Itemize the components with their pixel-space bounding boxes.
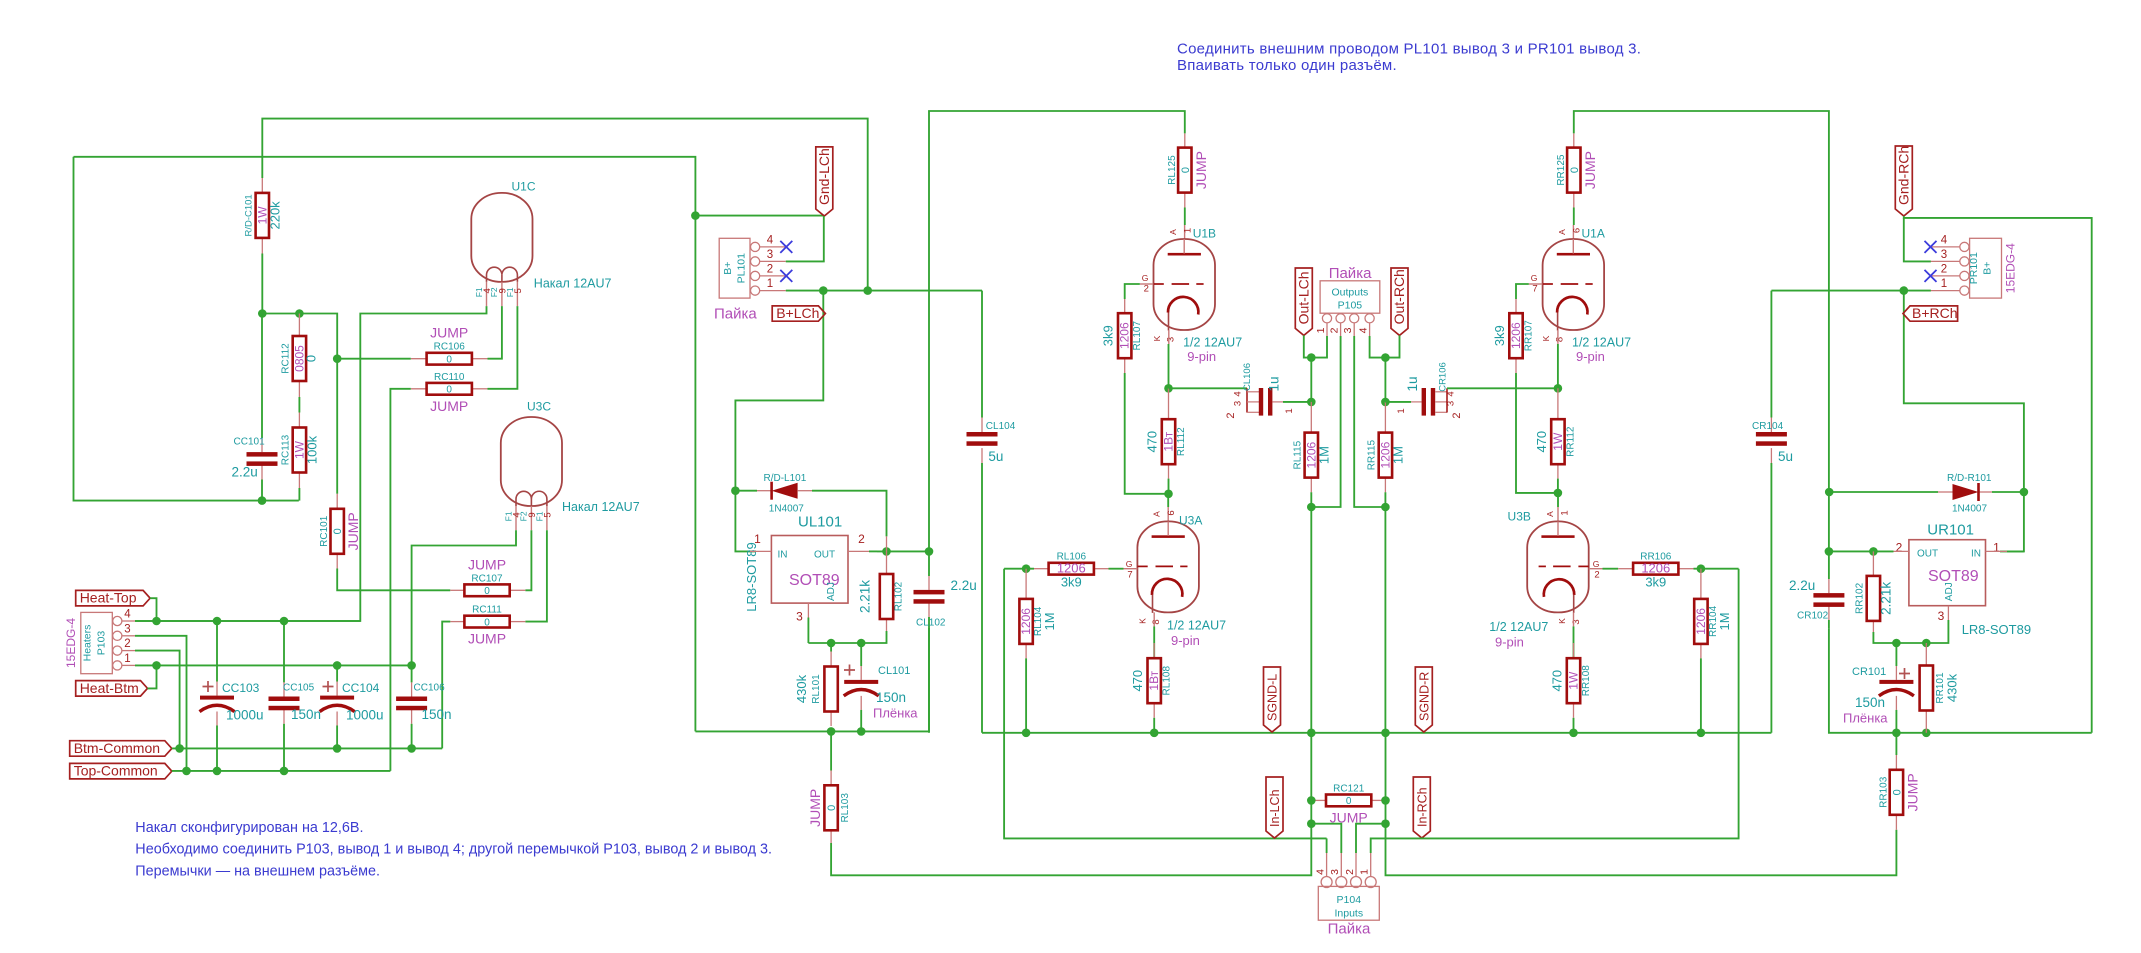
- junction: [691, 211, 700, 220]
- svg-text:Накал 12AU7: Накал 12AU7: [562, 500, 640, 514]
- svg-text:OUT: OUT: [814, 550, 835, 561]
- svg-text:1000u: 1000u: [226, 708, 264, 723]
- wire RR102 bottom / ADJ row: [1873, 620, 1948, 643]
- global label Btm-Common: [70, 741, 172, 757]
- junction: [1381, 729, 1390, 738]
- svg-text:CC106: CC106: [414, 683, 446, 694]
- resistor RR102 2.21k: [1872, 551, 1874, 576]
- svg-text:PL101: PL101: [736, 253, 748, 284]
- svg-text:JUMP: JUMP: [1904, 773, 1920, 811]
- wire RC110 left drop: [390, 389, 410, 771]
- svg-text:1206: 1206: [1509, 322, 1523, 349]
- svg-text:2: 2: [1594, 570, 1599, 581]
- svg-text:6: 6: [1572, 228, 1583, 233]
- junction: [827, 639, 836, 648]
- wire P103 pin3 drop: [135, 636, 187, 771]
- svg-text:RC110: RC110: [434, 372, 465, 383]
- junction: [1825, 547, 1834, 556]
- svg-text:CC103: CC103: [222, 681, 260, 695]
- svg-text:CL101: CL101: [878, 665, 910, 677]
- svg-text:2: 2: [1328, 327, 1340, 333]
- junction: [1164, 490, 1173, 499]
- wire OUT row right: [1829, 550, 1894, 552]
- wire RL102 bottom to ADJ row: [808, 631, 886, 643]
- wire RL112 bottom: [1168, 479, 1170, 494]
- wire Gnd-RCh to right border: [1904, 216, 2092, 733]
- svg-text:Пайка: Пайка: [714, 306, 757, 323]
- resistor RR112 470 1W: [1557, 388, 1559, 419]
- svg-text:1206: 1206: [1118, 322, 1132, 349]
- svg-text:2: 2: [858, 532, 865, 546]
- svg-text:LR8-SOT89: LR8-SOT89: [1962, 622, 2031, 637]
- capacitor CL101 150n film: [860, 643, 862, 666]
- resistor RC106 0 JUMP: [411, 358, 427, 360]
- tube U1A 1/2 12AU7: [1572, 225, 1574, 239]
- wire RC101 to RC107: [337, 569, 450, 591]
- svg-text:1Вт: 1Вт: [1147, 670, 1161, 690]
- svg-text:1Вт: 1Вт: [1162, 431, 1176, 451]
- wire CR104 bottom: [1770, 463, 1772, 733]
- svg-text:Плёнка: Плёнка: [1843, 711, 1888, 726]
- capacitor CC101 2.2u: [261, 314, 263, 439]
- svg-text:4: 4: [124, 609, 131, 621]
- input riser In-LCh to grid row: [1004, 569, 1327, 839]
- global label Heat-Top: [76, 590, 150, 606]
- junction: [1697, 564, 1706, 573]
- junction: [1022, 564, 1031, 573]
- wire Out-RCh to P105 pin4: [1385, 335, 1399, 357]
- svg-text:Out-LCh: Out-LCh: [1295, 271, 1311, 324]
- capacitor CC106 150n: [411, 665, 413, 682]
- svg-text:JUMP: JUMP: [807, 789, 823, 827]
- wire RL106 left: [1004, 568, 1034, 570]
- global label Top-Common: [70, 763, 172, 779]
- junction: [1022, 729, 1031, 738]
- svg-text:RR115: RR115: [1366, 439, 1377, 470]
- svg-text:Плёнка: Плёнка: [873, 706, 918, 721]
- svg-text:RL115: RL115: [1292, 440, 1303, 469]
- svg-text:In-RCh: In-RCh: [1415, 787, 1429, 827]
- svg-text:RC106: RC106: [434, 342, 466, 353]
- junction: [258, 309, 267, 318]
- wire ADJ drop: [807, 618, 809, 644]
- junction: [1307, 729, 1316, 738]
- regulator UR101 LR8-SOT89: [1909, 540, 1986, 606]
- junction: [1150, 729, 1159, 738]
- svg-text:5: 5: [513, 288, 524, 293]
- svg-text:RC113: RC113: [280, 434, 291, 465]
- diode R/D-R101 1N4007: [1829, 491, 1938, 493]
- resistor RC107 0 JUMP: [450, 589, 464, 591]
- wire RL106 right to U3A grid: [1109, 568, 1124, 570]
- svg-text:Впаивать только один разъём.: Впаивать только один разъём.: [1177, 57, 1397, 74]
- junction: [1381, 796, 1390, 805]
- wire GND row L1: [695, 628, 929, 731]
- svg-text:Пайка: Пайка: [1329, 265, 1372, 282]
- global label In-LCh: [1266, 777, 1283, 838]
- resistor RL106 3k9: [1034, 568, 1050, 570]
- junction: [731, 486, 740, 495]
- svg-text:5: 5: [542, 512, 553, 517]
- wire RC112-RC113: [298, 397, 300, 413]
- wire RL108 bottom: [1153, 718, 1155, 733]
- svg-text:Heaters: Heaters: [82, 625, 94, 662]
- wire In-RCh row to P104 pin1: [1371, 569, 1739, 853]
- junction: [1869, 547, 1878, 556]
- svg-text:4: 4: [512, 512, 523, 517]
- svg-text:2: 2: [1896, 540, 1903, 554]
- wire to Gnd-LCh label: [695, 215, 823, 217]
- svg-text:1u: 1u: [1267, 376, 1282, 391]
- svg-text:4: 4: [1314, 869, 1326, 875]
- no-connect X PL101 pin4: [780, 241, 792, 253]
- svg-text:Пайка: Пайка: [1328, 921, 1371, 938]
- junction: [1900, 286, 1909, 295]
- svg-text:Inputs: Inputs: [1334, 908, 1363, 920]
- svg-text:1206: 1206: [1694, 608, 1708, 635]
- junction: [280, 767, 289, 776]
- svg-text:1206: 1206: [1019, 608, 1033, 635]
- svg-text:1M: 1M: [1717, 612, 1732, 630]
- svg-text:2.2u: 2.2u: [232, 465, 258, 480]
- pin U1A cathode: [1557, 330, 1559, 344]
- svg-text:1/2 12AU7: 1/2 12AU7: [1572, 336, 1631, 350]
- junction: [857, 727, 866, 736]
- svg-text:8: 8: [1151, 619, 1162, 624]
- svg-text:2: 2: [1344, 869, 1356, 875]
- wire U1A cathode to RR112: [1557, 344, 1559, 388]
- svg-text:220k: 220k: [267, 201, 282, 230]
- pin UL101 OUT: [848, 550, 869, 552]
- resistor RL108 470 1Вт: [1153, 643, 1155, 658]
- svg-text:OUT: OUT: [1917, 549, 1938, 560]
- junction: [407, 661, 416, 670]
- wire R/D-C101 to row 313: [261, 254, 263, 314]
- junction: [280, 617, 289, 626]
- wire U1A grid to RR107: [1516, 284, 1529, 299]
- svg-text:3: 3: [1233, 401, 1244, 406]
- svg-text:RC107: RC107: [471, 573, 503, 584]
- svg-text:2.2u: 2.2u: [951, 578, 977, 593]
- capacitor CC104 1000u: [336, 665, 338, 681]
- svg-text:Heat-Top: Heat-Top: [80, 590, 137, 606]
- tube heater U3C: [501, 417, 562, 506]
- wire P103 pin2 drop: [135, 651, 180, 749]
- svg-text:G: G: [1531, 273, 1538, 283]
- svg-text:B+: B+: [1982, 262, 1994, 275]
- capacitor CR101 150n film: [1895, 643, 1897, 666]
- junction: [182, 767, 191, 776]
- junction: [1381, 503, 1390, 512]
- svg-text:3k9: 3k9: [1061, 575, 1082, 590]
- wire Heat-Btm: [148, 665, 157, 688]
- svg-text:150n: 150n: [1855, 695, 1885, 710]
- svg-text:9-pin: 9-pin: [1576, 349, 1605, 364]
- resistor RR104 1M: [1700, 569, 1702, 599]
- svg-text:JUMP: JUMP: [1193, 151, 1209, 189]
- junction: [925, 547, 934, 556]
- no-connect X PL101 pin2: [780, 270, 792, 282]
- svg-text:CL104: CL104: [986, 421, 1016, 432]
- svg-text:CC101: CC101: [234, 437, 266, 448]
- resistor RC111 0 JUMP: [450, 621, 464, 623]
- svg-text:CR106: CR106: [1438, 362, 1449, 392]
- global label Out-RCh: [1391, 268, 1408, 335]
- junction: [1892, 639, 1901, 648]
- wire OUT row: [877, 550, 929, 552]
- resistor RC110 0 JUMP: [411, 388, 427, 390]
- svg-text:CR102: CR102: [1797, 611, 1829, 622]
- svg-text:PR101: PR101: [1968, 252, 1980, 284]
- junction: [1307, 819, 1316, 828]
- svg-text:SGND-R: SGND-R: [1417, 672, 1431, 721]
- no-connect X PR101 pin2: [1925, 270, 1937, 282]
- junction: [1892, 729, 1901, 738]
- wire RR125 to U1A anode: [1573, 208, 1575, 226]
- tube U3B 1/2 12AU7 mirrored: [1527, 521, 1589, 612]
- wire Gnd-RCh to PR101 pin3: [1904, 218, 1931, 262]
- svg-text:1u: 1u: [1405, 376, 1420, 391]
- wire U1B cathode to RL112: [1168, 344, 1170, 388]
- svg-text:3: 3: [1571, 619, 1582, 624]
- wire diode right to IN drop: [1992, 491, 2024, 493]
- resistor RL115 1M: [1310, 402, 1312, 433]
- svg-text:3k9: 3k9: [1645, 575, 1666, 590]
- svg-text:RL107: RL107: [1132, 321, 1143, 351]
- svg-text:1: 1: [1560, 510, 1571, 515]
- global label In-RCh: [1413, 777, 1430, 838]
- svg-text:U3C: U3C: [527, 400, 551, 414]
- junction: [333, 354, 342, 363]
- svg-text:4: 4: [1941, 234, 1948, 246]
- svg-text:A: A: [1168, 229, 1178, 235]
- svg-text:RC121: RC121: [1333, 783, 1365, 794]
- junction: [152, 661, 161, 670]
- pin U1B cathode: [1168, 330, 1170, 344]
- svg-text:1: 1: [1941, 278, 1947, 290]
- svg-text:0: 0: [484, 617, 490, 628]
- resistor RR125 0 JUMP: [1574, 111, 1829, 551]
- wire SGND riser left to RC121: [1310, 733, 1312, 800]
- wire B+RCh drop to IN: [1904, 291, 2024, 552]
- svg-text:RC111: RC111: [472, 605, 502, 616]
- wire U1C pin5 to RC110: [488, 306, 518, 389]
- svg-text:1000u: 1000u: [346, 708, 384, 723]
- wire PL101 pin3 to Gnd-LCh: [786, 216, 824, 261]
- wire SGND right lower row to RR103: [1386, 824, 1897, 876]
- wire RR108 bottom: [1573, 718, 1575, 733]
- wire Out net drop to CR106: [1384, 358, 1386, 402]
- junction: [819, 286, 828, 295]
- svg-text:2.21k: 2.21k: [1878, 582, 1893, 615]
- svg-text:1: 1: [1396, 408, 1407, 413]
- junction: [1569, 729, 1578, 738]
- svg-text:3: 3: [1446, 401, 1457, 406]
- capacitor CR104 5u: [1770, 291, 1772, 418]
- svg-text:LR8-SOT89: LR8-SOT89: [744, 542, 759, 611]
- svg-text:0: 0: [332, 528, 344, 534]
- capacitor CL102 2.2u: [928, 551, 930, 576]
- svg-text:Heat-Btm: Heat-Btm: [80, 680, 139, 696]
- svg-text:1/2 12AU7: 1/2 12AU7: [1167, 619, 1226, 633]
- wire Out net drop to CL106: [1310, 358, 1312, 402]
- svg-text:1: 1: [1183, 228, 1194, 233]
- wire GND row L2: [982, 732, 1771, 734]
- svg-text:K: K: [1557, 618, 1567, 624]
- wire B+ riser to RL125 row: [929, 111, 1185, 551]
- svg-text:ADJ: ADJ: [1944, 582, 1955, 601]
- wire RR107 to U3B anode junction: [1516, 373, 1558, 493]
- wire U3A anode: [1167, 494, 1169, 507]
- svg-text:Накал сконфигурирован на 12,6В: Накал сконфигурирован на 12,6В.: [135, 820, 363, 836]
- svg-text:P103: P103: [96, 631, 108, 656]
- junction: [1922, 639, 1931, 648]
- junction: [1825, 488, 1834, 497]
- capacitor CR102 2.2u: [1828, 551, 1830, 579]
- connector PL101 B+: [719, 238, 750, 298]
- wire SGND riser right to RC121: [1385, 733, 1387, 800]
- svg-text:1/2 12AU7: 1/2 12AU7: [1489, 620, 1548, 634]
- junction: [295, 309, 304, 318]
- svg-text:RR108: RR108: [1581, 665, 1592, 697]
- svg-text:R/D-C101: R/D-C101: [243, 194, 254, 236]
- resistor RL102 2.21k: [886, 536, 888, 574]
- junction: [1381, 353, 1390, 362]
- tube heater U1C: [471, 193, 532, 282]
- junction: [882, 547, 891, 556]
- capacitor CC105 150n: [283, 621, 285, 682]
- wire RC121 left below: [1310, 800, 1312, 823]
- regulator UL101 LR8-SOT89: [771, 536, 848, 604]
- no-connect X PR101 pin4: [1925, 241, 1937, 253]
- svg-text:3: 3: [124, 623, 130, 635]
- capacitor CL104 5u: [981, 291, 983, 418]
- wire diode right to OUT row: [812, 491, 887, 537]
- svg-text:6: 6: [1166, 510, 1177, 515]
- junction: [1164, 384, 1173, 393]
- resistor RR107 3k9: [1515, 299, 1517, 313]
- svg-text:7: 7: [1127, 570, 1132, 581]
- svg-text:0: 0: [484, 586, 490, 597]
- svg-text:U1B: U1B: [1193, 227, 1216, 241]
- svg-text:RL103: RL103: [840, 793, 851, 823]
- svg-text:A: A: [1545, 511, 1555, 517]
- svg-text:9-pin: 9-pin: [1171, 633, 1200, 648]
- svg-text:IN: IN: [1971, 549, 1981, 560]
- junction: [152, 617, 161, 626]
- wire RL103 bottom to SGND riser: [831, 824, 1311, 876]
- svg-text:Соединить внешним проводом PL1: Соединить внешним проводом PL101 вывод 3…: [1177, 41, 1641, 58]
- wire U3B cathode to RR108: [1573, 626, 1575, 658]
- pin U3B grid right: [1589, 568, 1603, 570]
- svg-text:G: G: [1126, 559, 1133, 569]
- resistor RR115 1M: [1384, 402, 1386, 433]
- junction: [1307, 796, 1316, 805]
- svg-text:B+LCh: B+LCh: [776, 305, 819, 321]
- junction: [1697, 729, 1706, 738]
- svg-text:Необходимо соединить P103, выв: Необходимо соединить P103, вывод 1 и выв…: [135, 842, 772, 858]
- svg-text:3k9: 3k9: [1492, 325, 1507, 346]
- junction: [827, 727, 836, 736]
- wire U1C pin9 to RC106: [488, 306, 502, 359]
- svg-text:4: 4: [1233, 391, 1244, 396]
- svg-text:430k: 430k: [1944, 673, 1959, 702]
- svg-text:4: 4: [767, 234, 774, 246]
- svg-text:0: 0: [1180, 167, 1192, 173]
- resistor RC101 0 JUMP: [336, 494, 338, 509]
- junction: [213, 767, 222, 776]
- junction: [1307, 398, 1316, 407]
- svg-text:0: 0: [826, 805, 838, 811]
- junction: [175, 744, 184, 753]
- svg-text:3: 3: [1166, 337, 1177, 342]
- svg-text:3: 3: [1329, 869, 1341, 875]
- svg-text:100k: 100k: [304, 435, 319, 464]
- wire U3C pin4 to CC106 junction: [412, 530, 516, 665]
- svg-text:9: 9: [497, 288, 508, 293]
- svg-text:1: 1: [1315, 327, 1327, 333]
- wire P103 pin1 row: [135, 664, 412, 666]
- wire B+LCh drop to diode: [735, 291, 823, 552]
- svg-text:In-LCh: In-LCh: [1268, 789, 1282, 827]
- svg-text:0: 0: [446, 385, 452, 396]
- svg-text:RR112: RR112: [1565, 426, 1576, 457]
- junction: [863, 286, 872, 295]
- global label Gnd-LCh: [816, 147, 833, 216]
- wire U3A cathode to RL108: [1153, 626, 1155, 658]
- junction: [1307, 353, 1316, 362]
- wire Top-Common row: [172, 770, 391, 772]
- svg-text:RC112: RC112: [280, 343, 291, 374]
- svg-text:470: 470: [1145, 431, 1160, 453]
- wire to P104 pin3: [1311, 824, 1341, 853]
- svg-text:15EDG-4: 15EDG-4: [64, 618, 78, 668]
- svg-text:0: 0: [1569, 167, 1581, 173]
- wire left border GND: [74, 157, 299, 501]
- svg-text:1M: 1M: [1390, 446, 1405, 464]
- svg-text:3: 3: [767, 249, 773, 261]
- svg-text:1W: 1W: [1551, 432, 1565, 451]
- global label B+RCh: [1903, 306, 1958, 321]
- svg-text:U1C: U1C: [512, 180, 536, 194]
- svg-text:0: 0: [446, 355, 452, 366]
- svg-text:2: 2: [1451, 412, 1463, 418]
- wire RL107 to U3A anode junction: [1125, 373, 1169, 494]
- global label SGND-L: [1264, 667, 1281, 732]
- svg-text:Top-Common: Top-Common: [74, 763, 158, 779]
- svg-text:3k9: 3k9: [1101, 325, 1116, 346]
- svg-text:1206: 1206: [1641, 561, 1670, 576]
- svg-text:Накал 12AU7: Накал 12AU7: [534, 277, 612, 291]
- svg-text:0: 0: [1346, 796, 1352, 807]
- pin U3B cathode: [1573, 612, 1575, 626]
- svg-text:Btm-Common: Btm-Common: [74, 740, 160, 756]
- svg-text:RC101: RC101: [319, 515, 330, 547]
- svg-text:UL101: UL101: [798, 514, 842, 531]
- svg-text:IN: IN: [778, 550, 788, 561]
- wire CL102 bottom: [928, 628, 930, 733]
- svg-text:R/D-L101: R/D-L101: [764, 473, 807, 484]
- wire In-LCh row corner to P104 pin4: [1326, 838, 1328, 853]
- svg-text:ADJ: ADJ: [826, 582, 837, 601]
- junction: [1554, 384, 1563, 393]
- wire CR102 bottom / GND row R: [1829, 628, 2092, 733]
- svg-text:470: 470: [1550, 670, 1565, 692]
- svg-text:CC104: CC104: [342, 681, 380, 695]
- resistor RC113 100k: [298, 413, 300, 428]
- svg-text:4: 4: [482, 288, 493, 293]
- junction: [333, 661, 342, 670]
